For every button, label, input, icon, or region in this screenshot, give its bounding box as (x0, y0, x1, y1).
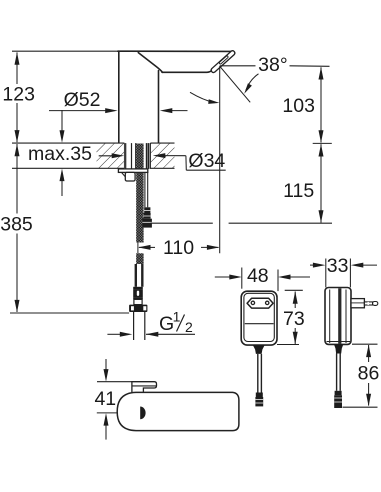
svg-text:115: 115 (283, 180, 314, 202)
svg-text:Ø52: Ø52 (64, 89, 101, 111)
svg-text:2: 2 (185, 319, 193, 335)
svg-text:38°: 38° (258, 54, 288, 76)
svg-text:1: 1 (173, 309, 181, 325)
svg-text:48: 48 (247, 265, 269, 287)
svg-text:33: 33 (327, 255, 349, 277)
svg-text:41: 41 (94, 388, 116, 410)
svg-text:385: 385 (0, 214, 33, 236)
svg-text:103: 103 (282, 95, 315, 117)
svg-text:73: 73 (283, 308, 305, 330)
svg-text:110: 110 (163, 237, 194, 259)
svg-text:max.35: max.35 (28, 143, 92, 165)
svg-text:86: 86 (358, 363, 380, 385)
svg-text:123: 123 (2, 84, 35, 106)
